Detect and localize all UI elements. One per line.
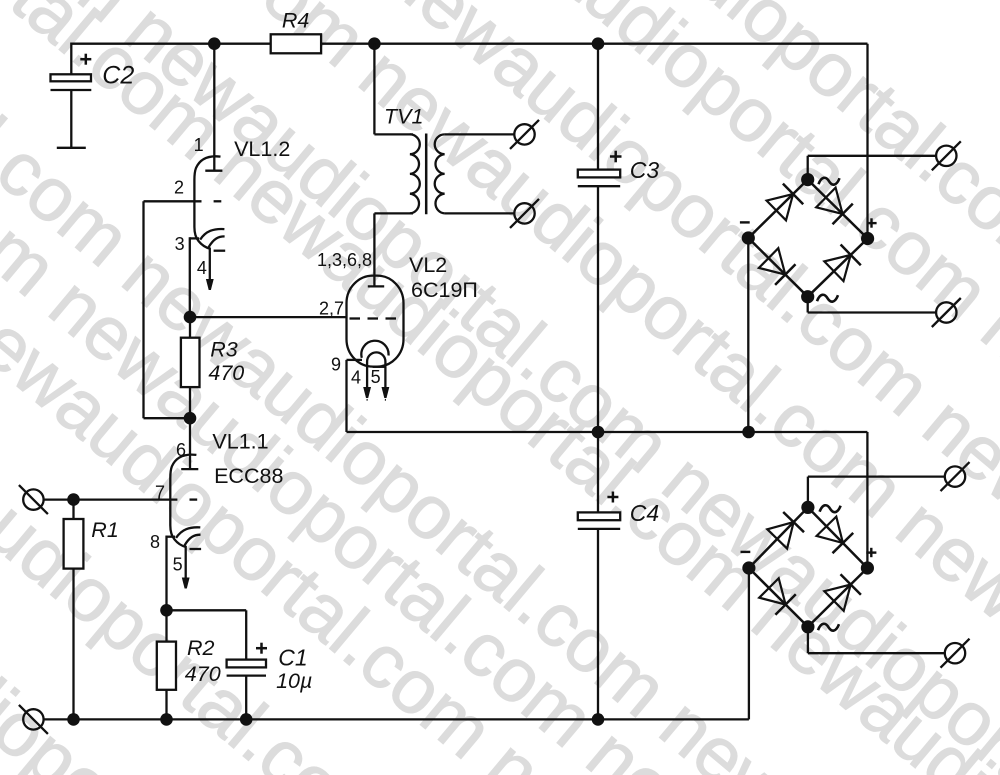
svg-text:C1: C1 (278, 645, 307, 671)
wire node A to VL2 grid (190, 316, 347, 318)
svg-text:R1: R1 (91, 518, 118, 542)
svg-text:2: 2 (174, 178, 184, 198)
svg-text:8: 8 (150, 532, 160, 552)
TV1 secondary terminal upper (514, 124, 534, 144)
svg-text:4: 4 (197, 258, 207, 278)
svg-text:2,7: 2,7 (319, 299, 344, 319)
junction node A (184, 311, 197, 324)
diode bridge1 D1 (767, 194, 794, 220)
resistor R2 (165, 610, 167, 641)
TV1 secondary terminal lower (514, 203, 534, 223)
capacitor C2 (70, 43, 72, 75)
diode bridge1 D3 (759, 248, 785, 274)
svg-text:TV1: TV1 (384, 105, 423, 129)
input terminal upper (23, 489, 43, 509)
heater VL1.1 (185, 535, 201, 546)
wire pin6 anode lead VL1.1 (189, 418, 191, 469)
svg-text:7: 7 (155, 483, 165, 503)
junction bus-C3C4 (592, 426, 605, 439)
heater VL2 (367, 352, 385, 366)
heater arrow pin 4 VL2 (366, 367, 368, 387)
wire heater supply bus (347, 431, 868, 433)
heater arrow pin 5 VL1.1 (185, 546, 187, 578)
wire TV1 secondary upper lead (445, 133, 515, 135)
junction rail-R2 (160, 713, 173, 726)
grid VL1.1 (pin 7) (44, 498, 178, 500)
heater arrow pin 4 VL1.2 (209, 248, 211, 280)
junction rail-TV1 (368, 37, 381, 50)
wire bridge1 minus down (747, 238, 749, 432)
output terminal 4 (945, 643, 965, 663)
svg-text:10µ: 10µ (276, 669, 312, 693)
cathode VL1.2 (200, 229, 224, 240)
junction rail-C4 (592, 713, 605, 726)
wire bridge1 AC top to output (807, 156, 809, 180)
tube VL1.2 envelope (194, 156, 220, 248)
transformer TV1 secondary winding (435, 134, 445, 213)
junction rail-VL1.2 (208, 37, 221, 50)
wire bridge2 AC top to output (807, 477, 809, 508)
svg-text:R2: R2 (187, 636, 215, 660)
wire top B+ rail (71, 43, 867, 45)
svg-text:3: 3 (175, 234, 185, 254)
cathode VL2 (pin 9) (361, 341, 388, 358)
pin3 cathode lead (190, 237, 200, 239)
svg-text:9: 9 (331, 355, 341, 375)
transformer TV1 core (425, 134, 428, 215)
input terminal lower (23, 709, 43, 729)
capacitor C3 (597, 44, 599, 170)
diode bridge2 D3 (759, 578, 785, 604)
wire TV1 secondary lower lead (445, 212, 515, 214)
svg-text:1,3,6,8: 1,3,6,8 (317, 250, 372, 270)
junction bus-bridge1 (742, 426, 755, 439)
bridge2 node + right (861, 561, 874, 574)
svg-text:6С19П: 6С19П (411, 278, 478, 302)
wire rail to bridge1 + node (866, 44, 868, 239)
bridge1 node ~ top (801, 173, 814, 186)
anode VL1.2 (205, 170, 222, 172)
wire bridge2 AC bottom to output (807, 627, 809, 653)
anode VL1.1 (181, 468, 198, 470)
wire cathode node to C1 (167, 609, 247, 611)
output terminal 2 (936, 302, 956, 322)
wire bridge1 AC bottom to output (807, 297, 809, 313)
grid VL1.2 (pin 2) (144, 200, 202, 202)
svg-text:470: 470 (208, 361, 244, 385)
svg-text:6: 6 (176, 440, 186, 460)
cathode VL1.1 (176, 527, 200, 538)
junction node B (184, 412, 197, 425)
junction cathode node (160, 604, 173, 617)
heater VL1.2 (209, 236, 225, 247)
bridge rectifier 2 (749, 507, 868, 626)
junction rail-R1 (67, 713, 80, 726)
diode bridge2 D2 (817, 517, 843, 543)
heater arrow pin 5 VL2 (384, 367, 386, 387)
pin9 lead (347, 359, 363, 361)
junction rail-C3 (592, 37, 605, 50)
output terminal 3 (945, 466, 965, 486)
junction rail-C1 (240, 713, 253, 726)
anode VL2 (pins 1,3,6,8) (368, 285, 384, 287)
svg-text:C4: C4 (630, 500, 659, 526)
bridge2 node - left (742, 561, 755, 574)
svg-text:5: 5 (371, 367, 381, 387)
wire grid feedback loop (142, 201, 144, 418)
resistor R4 (271, 34, 321, 53)
svg-text:R4: R4 (282, 9, 310, 33)
bridge2 node ~ top (801, 501, 814, 514)
bridge1 node - left (742, 231, 755, 244)
diode bridge2 D1 (767, 522, 793, 549)
diode bridge1 D4 (824, 255, 850, 281)
tube VL2 envelope (347, 276, 404, 367)
svg-text:4: 4 (351, 368, 361, 388)
grid VL2 (pins 2,7) (350, 317, 361, 319)
svg-text:C2: C2 (102, 62, 134, 90)
bridge1 node ~ bottom (801, 290, 814, 303)
bridge1 node + right (861, 232, 874, 245)
resistor R3 (189, 317, 191, 338)
wire pin1 anode lead VL1.2 (213, 44, 215, 171)
bridge rectifier 1 (748, 180, 867, 297)
wire bottom return rail (44, 718, 749, 720)
junction R1 top (67, 493, 80, 506)
tube VL1.1 envelope (170, 455, 196, 547)
svg-text:470: 470 (185, 662, 221, 686)
transformer TV1 primary winding (410, 134, 420, 213)
capacitor C4 (578, 512, 620, 520)
svg-text:1: 1 (194, 135, 204, 155)
svg-text:ECC88: ECC88 (214, 464, 283, 488)
diode bridge2 D4 (824, 585, 850, 611)
svg-text:VL1.2: VL1.2 (234, 137, 290, 161)
wire TV1 primary feed (373, 44, 375, 135)
svg-text:VL2: VL2 (409, 253, 447, 277)
bridge2 node ~ bottom (801, 620, 814, 633)
svg-text:5: 5 (173, 555, 183, 575)
diode bridge1 D2 (816, 188, 842, 214)
pin8 cathode lead (166, 536, 176, 538)
resistor R1 (72, 500, 74, 720)
capacitor C1 (245, 610, 247, 659)
svg-text:R3: R3 (210, 338, 238, 362)
output terminal 1 (936, 146, 956, 166)
svg-text:C3: C3 (630, 157, 660, 183)
svg-text:VL1.1: VL1.1 (212, 430, 268, 454)
